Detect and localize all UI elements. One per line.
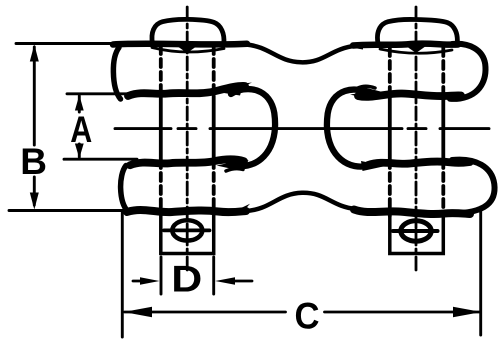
left clevis top lobe left cap	[113, 48, 120, 100]
dimension D left extension line	[160, 257, 163, 294]
nut plate left	[161, 214, 214, 254]
right clevis top edge taper point	[351, 44, 363, 50]
cotter pin hole right	[401, 221, 431, 241]
right clevis inner left cap	[327, 90, 373, 167]
right clevis inner cap end spikes	[359, 86, 385, 96]
dimension B line lower segment	[33, 177, 36, 205]
bolt right centerline	[415, 7, 418, 271]
dimension A top extension line	[67, 92, 137, 95]
dimension D arrow right head	[215, 277, 235, 285]
svg-text:D: D	[171, 259, 202, 300]
right clevis top lobe inner arc under bolt head	[380, 49, 452, 53]
cotter pin hole left cross line	[164, 228, 210, 232]
svg-text:C: C	[295, 296, 320, 337]
dimension A bottom extension line	[64, 158, 137, 161]
right clevis top lobe bottom edge	[358, 93, 461, 96]
dimension B arrow up	[30, 45, 39, 62]
dimension C arrow left	[124, 307, 152, 317]
right clevis top lobe bottom edge taper	[350, 93, 368, 100]
bolt left centerline	[186, 7, 189, 270]
right clevis bottom lobe bottom edge	[354, 210, 470, 215]
wire top saddle between clevises	[246, 45, 356, 63]
left clevis top lobe bottom edge	[128, 86, 245, 96]
left clevis top lobe bottom edge taper	[238, 83, 252, 90]
dimension A line upper segment	[78, 96, 81, 112]
right clevis hook above inner cap	[358, 86, 375, 88]
left clevis inner right cap	[229, 89, 275, 166]
dimension D arrow right tail	[233, 280, 252, 283]
cotter pin hole right cross line	[393, 229, 438, 233]
nut plate right	[390, 216, 444, 254]
wire dimension extension line top (B top)	[16, 42, 122, 45]
dimension C left extension line	[121, 212, 124, 337]
dimension C line right segment	[325, 311, 480, 314]
dimension C line left segment	[125, 311, 286, 314]
svg-text:B: B	[20, 141, 47, 182]
left clevis bottom edge taper point	[240, 204, 250, 211]
svg-text:A: A	[70, 109, 92, 150]
dimension B arrow down	[30, 193, 39, 210]
wire dimension extension line bottom (B bottom)	[9, 209, 136, 212]
right clevis bottom lobe top edge	[368, 162, 470, 165]
right clevis top lobe top edge	[353, 44, 458, 46]
dimension C right extension line	[479, 207, 482, 335]
cotter pin hole left	[172, 220, 202, 240]
right clevis top lobe right cap	[450, 44, 486, 99]
bolt head right	[377, 19, 457, 43]
wire bottom saddle between clevises	[246, 193, 356, 211]
left clevis top lobe inner arc under bolt head	[152, 48, 224, 53]
dimension B line upper segment	[33, 47, 36, 145]
node part horizontal centerline	[115, 127, 489, 130]
dimension C arrow right	[453, 307, 482, 317]
bolt left shaft right edge	[212, 46, 216, 214]
left clevis top lobe top edge	[113, 40, 247, 47]
dimension A arrow down	[75, 144, 84, 159]
left clevis inner cap end spikes	[218, 86, 244, 96]
left clevis bottom lobe left cap	[121, 166, 128, 212]
bolt head left	[152, 19, 224, 43]
dimension D arrow left head	[140, 277, 160, 285]
bolt left shaft left edge	[159, 46, 163, 214]
dimension A arrow up	[75, 95, 84, 111]
right clevis bottom lobe right cap	[452, 160, 495, 214]
left clevis hook below inner cap	[226, 169, 243, 171]
left clevis bottom lobe top edge	[130, 159, 244, 165]
dimension D arrow left tail	[133, 280, 142, 283]
dimension D right extension line	[212, 257, 215, 294]
dimension A line lower segment	[78, 144, 81, 157]
bolt head left base notch	[177, 46, 197, 53]
left clevis bottom lobe bottom edge	[127, 210, 246, 212]
bolt right shaft right edge	[441, 48, 445, 216]
left clevis bottom lobe top edge hook	[236, 158, 249, 164]
bolt right shaft left edge	[388, 48, 392, 216]
bolt head right base notch	[406, 46, 426, 53]
